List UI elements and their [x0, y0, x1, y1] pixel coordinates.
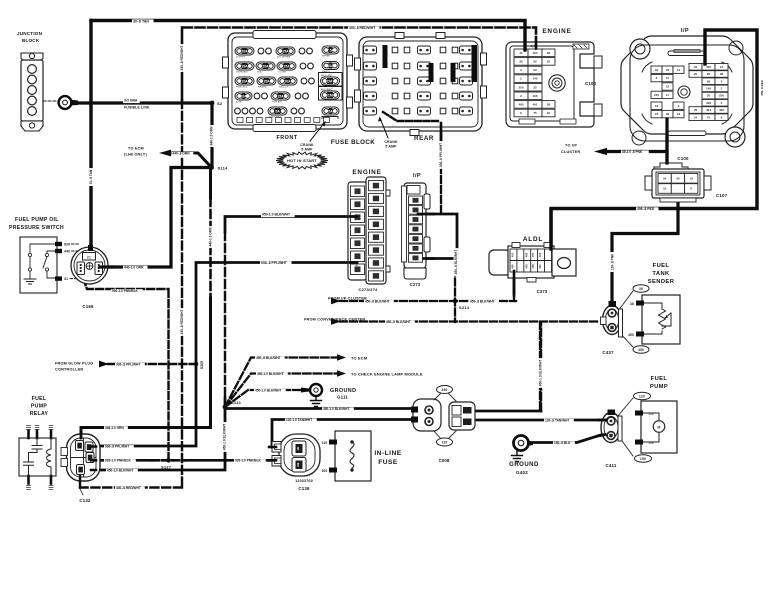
wire 120-.8 TAN/WHT C008 to C411 — [474, 419, 601, 422]
svg-text:475: 475 — [355, 241, 359, 246]
svg-text:IGN: IGN — [257, 72, 262, 74]
wire 456-.8 RED right bus to ALDL — [551, 30, 757, 246]
wire stub C166 440 ORN — [100, 265, 112, 268]
svg-text:140: 140 — [706, 87, 711, 91]
svg-text:ECM: ECM — [236, 102, 241, 104]
svg-text:450-1.0 BLK/WHT: 450-1.0 BLK/WHT — [323, 407, 349, 411]
connector C100 engine side — [506, 28, 602, 127]
svg-text:12: 12 — [666, 85, 670, 89]
svg-text:491: 491 — [706, 108, 711, 112]
svg-text:25: 25 — [694, 72, 698, 76]
fuses row 4 — [235, 92, 252, 100]
svg-text:25: 25 — [547, 60, 551, 64]
svg-text:3-3 GRA: 3-3 GRA — [124, 98, 138, 102]
wire crank exit over rear fuse block — [383, 112, 438, 121]
svg-text:21: 21 — [720, 65, 724, 69]
I/P pin grid left — [651, 66, 662, 73]
svg-text:HTR A/C: HTR A/C — [272, 101, 282, 104]
svg-text:439: 439 — [355, 189, 359, 194]
svg-text:456-.8 RED: 456-.8 RED — [637, 207, 655, 211]
switch pins — [55, 242, 62, 246]
fuses row 2 — [235, 62, 254, 70]
svg-text:140: 140 — [532, 77, 537, 81]
svg-text:430-.8 RED/WHT: 430-.8 RED/WHT — [180, 310, 184, 335]
wire 936-.8 PPL/WHT to C273/274 and bus — [99, 263, 350, 447]
svg-text:490: 490 — [706, 65, 711, 69]
svg-text:75: 75 — [707, 115, 711, 119]
wire labels — [132, 19, 154, 24]
connector C136 — [272, 434, 320, 491]
wire stub into C100 dashed — [535, 43, 538, 51]
svg-text:490: 490 — [719, 108, 724, 112]
svg-text:24: 24 — [655, 112, 659, 116]
svg-text:440-1.0 ORN: 440-1.0 ORN — [210, 126, 214, 145]
svg-text:450-1.0 BLK/WHT: 450-1.0 BLK/WHT — [255, 389, 281, 393]
svg-text:FUSE: FUSE — [378, 459, 398, 466]
svg-text:10A: 10A — [240, 94, 247, 98]
svg-text:FRONT: FRONT — [276, 135, 297, 141]
svg-text:250: 250 — [518, 85, 523, 89]
rear terminals row 5 — [364, 107, 377, 115]
wire stub into C411 — [598, 420, 606, 436]
ground G111 ring terminal — [301, 384, 356, 407]
wire S131 fan to ECM / lamp / G111 (dash) — [225, 358, 337, 408]
svg-text:REAR: REAR — [414, 135, 434, 142]
svg-text:141: 141 — [297, 446, 300, 451]
node S2 — [210, 101, 215, 106]
svg-text:490: 490 — [532, 51, 537, 55]
svg-text:440: 440 — [64, 250, 70, 254]
svg-text:15A: 15A — [277, 94, 284, 98]
svg-text:BRAKE: BRAKE — [258, 86, 267, 89]
svg-text:JUNCTION: JUNCTION — [17, 31, 43, 36]
fuse block rear view — [355, 33, 487, 136]
C100 center post — [549, 75, 565, 91]
I/P pin grid right — [689, 64, 702, 71]
node S131 — [223, 405, 228, 410]
rear terminals row 4 — [364, 92, 377, 100]
svg-text:39-2.0 .8 PNK: 39-2.0 .8 PNK — [622, 150, 643, 154]
svg-text:S127: S127 — [161, 465, 172, 470]
svg-text:FUSIBLE LINK: FUSIBLE LINK — [124, 105, 150, 109]
svg-text:306: 306 — [355, 228, 359, 233]
svg-text:ECM I: ECM I — [325, 93, 334, 97]
wire S2 to S114 440 ORN — [210, 103, 213, 168]
svg-text:120: 120 — [442, 441, 448, 445]
svg-text:S205: S205 — [200, 361, 204, 369]
svg-text:CRANK: CRANK — [384, 140, 398, 144]
svg-text:20A: 20A — [262, 64, 269, 68]
svg-text:450-.8 BLK/WHT: 450-.8 BLK/WHT — [365, 299, 390, 303]
svg-text:35: 35 — [707, 94, 711, 98]
svg-text:ENGINE: ENGINE — [542, 28, 571, 35]
svg-text:450-1.0 BLK/WHT: 450-1.0 BLK/WHT — [223, 424, 227, 450]
rear terminals row 2 — [364, 62, 377, 70]
fuel pump oil pressure switch — [9, 217, 70, 293]
svg-text:LIGHTS: LIGHTS — [236, 57, 246, 59]
rear terminals row 1 — [364, 46, 377, 54]
svg-text:12033769: 12033769 — [295, 479, 313, 483]
fuse ECM-B boxed — [319, 73, 343, 87]
svg-text:GROUND: GROUND — [330, 388, 356, 394]
wire stub into C100 solid — [523, 43, 526, 51]
svg-text:306-.8 PPL/WHT: 306-.8 PPL/WHT — [439, 143, 443, 167]
svg-text:35: 35 — [533, 85, 537, 89]
ring terminal at junction block — [59, 96, 78, 109]
svg-text:936-.8 PPL/WHT: 936-.8 PPL/WHT — [261, 261, 288, 265]
svg-text:C273: C273 — [410, 282, 421, 287]
svg-text:440-1.0 ORN: 440-1.0 ORN — [124, 266, 144, 270]
svg-text:BLOCK: BLOCK — [22, 38, 40, 43]
svg-text:440-1.0 ORN: 440-1.0 ORN — [209, 227, 213, 246]
svg-text:FUSE BLOCK: FUSE BLOCK — [331, 139, 375, 146]
fuel tank sender — [618, 263, 680, 353]
svg-text:25: 25 — [666, 68, 670, 72]
svg-text:93: 93 — [707, 79, 711, 83]
svg-text:14: 14 — [677, 68, 681, 72]
svg-text:CLSTR: CLSTR — [278, 72, 287, 74]
svg-text:31-.8 TAN: 31-.8 TAN — [89, 169, 93, 184]
svg-text:25A: 25A — [282, 49, 289, 53]
fuse block front view — [223, 31, 353, 132]
svg-text:458: 458 — [531, 264, 535, 269]
node S127 — [166, 458, 171, 463]
wire stub ALDL bottom exit — [513, 271, 516, 296]
svg-text:(LH6 ONLY): (LH6 ONLY) — [124, 153, 147, 157]
wire 440-1.0 ORN S114 to C166 — [104, 168, 212, 268]
wire rear fuse crank exit 306-.8 PPL/WHT — [383, 112, 438, 121]
svg-text:20A: 20A — [241, 49, 248, 53]
svg-text:TANK: TANK — [652, 271, 670, 277]
svg-text:PUMP: PUMP — [650, 384, 668, 390]
svg-text:490: 490 — [518, 103, 523, 107]
svg-text:RELAY: RELAY — [30, 411, 49, 417]
wire stubs into C273/274 — [350, 217, 357, 263]
svg-text:450-.8 BLK/WHT: 450-.8 BLK/WHT — [386, 320, 411, 324]
svg-text:RADIO: RADIO — [322, 70, 330, 73]
relay wire stubs into C132 — [80, 428, 83, 439]
svg-text:G402: G402 — [516, 470, 528, 475]
svg-text:5 AMP: 5 AMP — [301, 148, 313, 152]
fuse ECM-I boxed — [319, 87, 343, 101]
svg-text:460: 460 — [538, 252, 542, 257]
svg-text:TAIL/LP: TAIL/LP — [279, 86, 289, 89]
svg-text:120-.8 TAN/WHT: 120-.8 TAN/WHT — [545, 418, 569, 422]
svg-text:496: 496 — [532, 94, 537, 98]
wire stub I/P pin 30 down — [665, 119, 668, 163]
svg-text:FROM CONVENIENCE CENTER: FROM CONVENIENCE CENTER — [304, 317, 365, 321]
svg-text:38: 38 — [630, 302, 634, 306]
svg-text:490: 490 — [442, 388, 448, 392]
svg-text:450: 450 — [638, 348, 644, 352]
wire 430-.8 RED/WHT left bus — [181, 28, 184, 101]
svg-text:29: 29 — [547, 103, 551, 107]
svg-text:430-.8 RED/WHT: 430-.8 RED/WHT — [180, 46, 184, 71]
svg-text:IN-LINE: IN-LINE — [374, 450, 401, 457]
svg-text:450: 450 — [628, 333, 634, 337]
svg-text:ECM B: ECM B — [325, 79, 336, 83]
svg-text:33: 33 — [547, 51, 551, 55]
svg-text:920: 920 — [322, 469, 328, 473]
svg-text:PUMP: PUMP — [31, 404, 47, 410]
svg-text:939-1.0 PNK/BLK: 939-1.0 PNK/BLK — [105, 459, 132, 463]
fuse wiper 7.5A — [322, 46, 339, 54]
svg-text:24: 24 — [663, 176, 667, 180]
svg-text:150-.8 BLK: 150-.8 BLK — [554, 441, 571, 445]
svg-text:461: 461 — [538, 264, 542, 269]
balloons 120/150 — [617, 398, 633, 456]
svg-text:92: 92 — [707, 72, 711, 76]
svg-text:120-.8 PNK: 120-.8 PNK — [611, 253, 615, 270]
svg-text:446-1.0 ORN: 446-1.0 ORN — [105, 426, 124, 430]
connector C273 I/P — [402, 173, 431, 287]
oil switch pin links to C166 (dash) — [70, 244, 80, 279]
wire fusible link ring to S2 — [77, 101, 212, 104]
svg-text:G111: G111 — [337, 395, 348, 400]
svg-text:450-1.0 BLK/WHT: 450-1.0 BLK/WHT — [107, 469, 133, 473]
ALDL pin grid — [510, 249, 552, 272]
svg-text:450-1.0 BLK/WHT: 450-1.0 BLK/WHT — [539, 360, 543, 386]
svg-text:920: 920 — [64, 243, 70, 247]
svg-text:5A: 5A — [328, 109, 333, 113]
svg-text:S2: S2 — [217, 101, 223, 106]
svg-text:C008: C008 — [439, 458, 450, 463]
svg-text:PWR ACC: PWR ACC — [236, 86, 248, 89]
svg-text:440-.8 ORN: 440-.8 ORN — [173, 152, 191, 156]
svg-text:30-.8 TAN: 30-.8 TAN — [133, 19, 149, 23]
svg-text:C273/274: C273/274 — [359, 287, 379, 292]
svg-text:C373: C373 — [537, 289, 548, 294]
svg-text:450-.8 BLK/WHT: 450-.8 BLK/WHT — [470, 299, 495, 303]
svg-text:936-.8 PPL/WHT: 936-.8 PPL/WHT — [105, 445, 129, 449]
svg-text:GROUND: GROUND — [509, 462, 539, 468]
svg-text:7.5A: 7.5A — [327, 48, 335, 52]
svg-text:SENDER: SENDER — [648, 279, 675, 285]
svg-text:10A: 10A — [327, 64, 334, 68]
svg-text:CRANK: CRANK — [300, 143, 314, 147]
svg-text:I/P: I/P — [681, 28, 689, 34]
wire ALDL exit down — [513, 276, 516, 294]
svg-text:10A: 10A — [241, 79, 248, 83]
connector C132 — [61, 428, 100, 504]
svg-text:430-.8 RED/WHT: 430-.8 RED/WHT — [349, 26, 376, 30]
wire C008 to 450 BLK/WHT vertical (dash) — [474, 410, 541, 413]
wire 30-.8 TAN top bus — [91, 21, 525, 248]
svg-text:11: 11 — [666, 93, 670, 97]
svg-text:30: 30 — [666, 112, 670, 116]
connector ALDL C373 — [489, 236, 576, 294]
svg-text:120-1.0 TAN/WHT: 120-1.0 TAN/WHT — [286, 418, 312, 422]
svg-text:450: 450 — [531, 252, 535, 257]
svg-text:930-1.0 PNK/BLK: 930-1.0 PNK/BLK — [112, 289, 139, 293]
svg-text:15A: 15A — [241, 64, 248, 68]
wire 440-1.0 ORN bus down to relay C132 — [81, 168, 211, 437]
wire from glow plug controller (dash) — [108, 363, 196, 365]
fuel pump — [617, 376, 677, 462]
connector C273/274 engine — [348, 169, 390, 292]
svg-text:450-1.0 BLK/WHT: 450-1.0 BLK/WHT — [257, 372, 283, 376]
svg-text:19: 19 — [677, 112, 681, 116]
svg-text:31: 31 — [64, 277, 68, 281]
svg-text:5 AMP: 5 AMP — [385, 145, 397, 149]
svg-text:WIPER: WIPER — [322, 56, 330, 58]
svg-text:15A: 15A — [283, 64, 290, 68]
svg-text:430-.8 RED/WHT: 430-.8 RED/WHT — [116, 486, 141, 490]
svg-text:M: M — [657, 426, 660, 430]
svg-text:150: 150 — [640, 457, 646, 461]
svg-text:250: 250 — [719, 94, 724, 98]
node S214 — [453, 299, 458, 304]
svg-text:PRESSURE SWITCH: PRESSURE SWITCH — [9, 225, 64, 231]
svg-text:FUEL: FUEL — [653, 263, 670, 269]
svg-text:98: 98 — [720, 72, 724, 76]
wire C273 U-loop jumper — [420, 214, 457, 259]
connector C107 — [645, 163, 728, 202]
svg-text:120: 120 — [639, 395, 645, 399]
rear terminals row 3 — [364, 77, 377, 85]
svg-text:C100: C100 — [677, 156, 689, 161]
front bottom pin strip — [237, 118, 243, 123]
svg-text:C166: C166 — [82, 304, 94, 309]
svg-text:38: 38 — [639, 287, 643, 291]
svg-text:FUEL: FUEL — [32, 396, 47, 402]
wire stub into I/P pin 490 — [703, 36, 706, 64]
svg-text:120: 120 — [322, 441, 328, 445]
svg-text:18: 18 — [663, 187, 667, 191]
svg-text:18: 18 — [655, 104, 659, 108]
svg-text:15A: 15A — [263, 79, 270, 83]
svg-text:936-.8 PPL/WHT: 936-.8 PPL/WHT — [116, 363, 140, 367]
in-line fuse — [322, 431, 402, 481]
svg-text:36: 36 — [519, 60, 523, 64]
fuses row 3 — [235, 77, 254, 85]
wire 939-1.0 PNK/BLK relay to C136 — [99, 459, 274, 462]
svg-text:J1: J1 — [519, 51, 523, 55]
svg-text:949: 949 — [297, 462, 300, 467]
wire 450-1.0 BLK/WHT to C273/274 and bus — [96, 217, 350, 471]
wire stub into ALDL top — [549, 210, 552, 249]
svg-text:29: 29 — [694, 108, 698, 112]
svg-text:455: 455 — [524, 264, 528, 269]
svg-text:TO ECM: TO ECM — [351, 356, 367, 361]
I/P center post — [678, 86, 690, 98]
wire 120-1.0 TAN/WHT C136 to C008 — [272, 420, 417, 448]
sender resistor — [644, 303, 662, 334]
fuse radio 10A — [322, 62, 339, 70]
wire 450-1.0 BLK/WHT S131 to C008 — [225, 407, 417, 410]
node S205 — [194, 362, 199, 367]
wire 430-.8 RED/WHT top (dash) into C100 — [183, 28, 536, 50]
svg-text:TO I/P: TO I/P — [565, 144, 577, 148]
svg-text:C437: C437 — [602, 350, 614, 355]
svg-text:496: 496 — [706, 101, 711, 105]
svg-text:S114: S114 — [218, 166, 228, 171]
C100 pin grid — [514, 49, 528, 57]
rotated wire labels — [89, 168, 94, 186]
svg-text:94: 94 — [655, 68, 659, 72]
fuses row 1 — [235, 47, 254, 55]
svg-text:19: 19 — [690, 176, 694, 180]
svg-text:C107: C107 — [716, 193, 728, 198]
svg-text:21: 21 — [87, 256, 91, 260]
wire 930-1.0 PNK/BLK C166 to S127 (dash) — [83, 279, 169, 461]
svg-text:240: 240 — [654, 93, 659, 97]
node S114 — [209, 165, 214, 170]
svg-text:ALDL: ALDL — [523, 236, 543, 243]
svg-text:C136: C136 — [298, 486, 310, 491]
connector C411 — [601, 410, 622, 469]
svg-text:24: 24 — [694, 115, 698, 119]
fuel pump relay — [19, 396, 56, 490]
svg-text:C411: C411 — [605, 463, 616, 468]
rear jumper bars — [383, 45, 388, 68]
svg-text:CONTROLLER: CONTROLLER — [55, 368, 83, 372]
svg-text:450-.8 BLK/WHT: 450-.8 BLK/WHT — [256, 356, 281, 360]
svg-text:93: 93 — [533, 68, 537, 72]
svg-text:S214: S214 — [459, 305, 470, 310]
svg-text:485: 485 — [524, 252, 528, 257]
svg-text:CLUSTER: CLUSTER — [561, 150, 580, 154]
connector C437 — [601, 301, 623, 355]
svg-text:FROM GLOW PLUG: FROM GLOW PLUG — [55, 362, 93, 366]
I/P pin grid lower-left — [651, 102, 662, 109]
svg-text:C132: C132 — [79, 498, 91, 503]
wire stubs into C136 — [269, 447, 276, 460]
junction block — [17, 31, 57, 131]
svg-text:456-.8 RED: 456-.8 RED — [760, 79, 764, 96]
svg-text:24: 24 — [547, 111, 551, 115]
hot in start burst — [276, 152, 328, 169]
fuses row 5 — [235, 108, 241, 114]
svg-text:5A: 5A — [275, 109, 280, 113]
balloons 38 / 450 — [618, 291, 633, 347]
ground inside switch — [24, 279, 36, 284]
svg-text:C100: C100 — [585, 81, 597, 86]
svg-text:939-1.0 PNK/BLK: 939-1.0 PNK/BLK — [235, 459, 262, 463]
wire 440-.8 ORN arrow TO ECM — [171, 153, 212, 168]
fuse crank 5 amp front — [322, 107, 339, 115]
wire 450-.8 BLK/WHT to S214 (dash) — [340, 259, 600, 410]
ground G402 ring terminal — [509, 436, 539, 476]
svg-text:75: 75 — [533, 111, 537, 115]
connector C008 pair — [411, 386, 475, 464]
svg-text:20A: 20A — [284, 79, 291, 83]
svg-text:491: 491 — [532, 103, 537, 107]
switch internals — [30, 244, 56, 253]
wire 150-.8 BLK G402 to C411 — [528, 434, 604, 443]
svg-text:451: 451 — [511, 252, 515, 257]
svg-text:30: 30 — [676, 176, 680, 180]
wire I/P pin30 down to C107 and to fuel tank sender — [607, 119, 678, 303]
svg-text:450-.8 BLK/WHT: 450-.8 BLK/WHT — [454, 250, 458, 275]
relay internals: capacitors + coil — [29, 438, 43, 462]
connector C166 — [71, 245, 108, 309]
svg-text:450: 450 — [511, 264, 515, 269]
svg-text:FUEL: FUEL — [651, 376, 668, 382]
svg-text:A/C WIPER: A/C WIPER — [277, 56, 291, 59]
svg-text:HOT IN START: HOT IN START — [287, 158, 317, 163]
svg-text:TO ECM: TO ECM — [128, 147, 144, 151]
svg-text:ENGINE: ENGINE — [352, 169, 381, 176]
wire stubs C273 jumper pins — [418, 214, 433, 259]
svg-text:FUEL PUMP OIL: FUEL PUMP OIL — [15, 217, 59, 223]
svg-text:450-1.0 BLK/WHT: 450-1.0 BLK/WHT — [262, 212, 291, 216]
connector C100 I/P side — [621, 28, 753, 161]
svg-text:TO CHECK ENGINE LAMP MODULE: TO CHECK ENGINE LAMP MODULE — [351, 372, 423, 377]
svg-text:I/P: I/P — [413, 173, 421, 179]
svg-text:92: 92 — [533, 60, 537, 64]
svg-text:FROM I/P CLUSTER: FROM I/P CLUSTER — [328, 297, 367, 301]
